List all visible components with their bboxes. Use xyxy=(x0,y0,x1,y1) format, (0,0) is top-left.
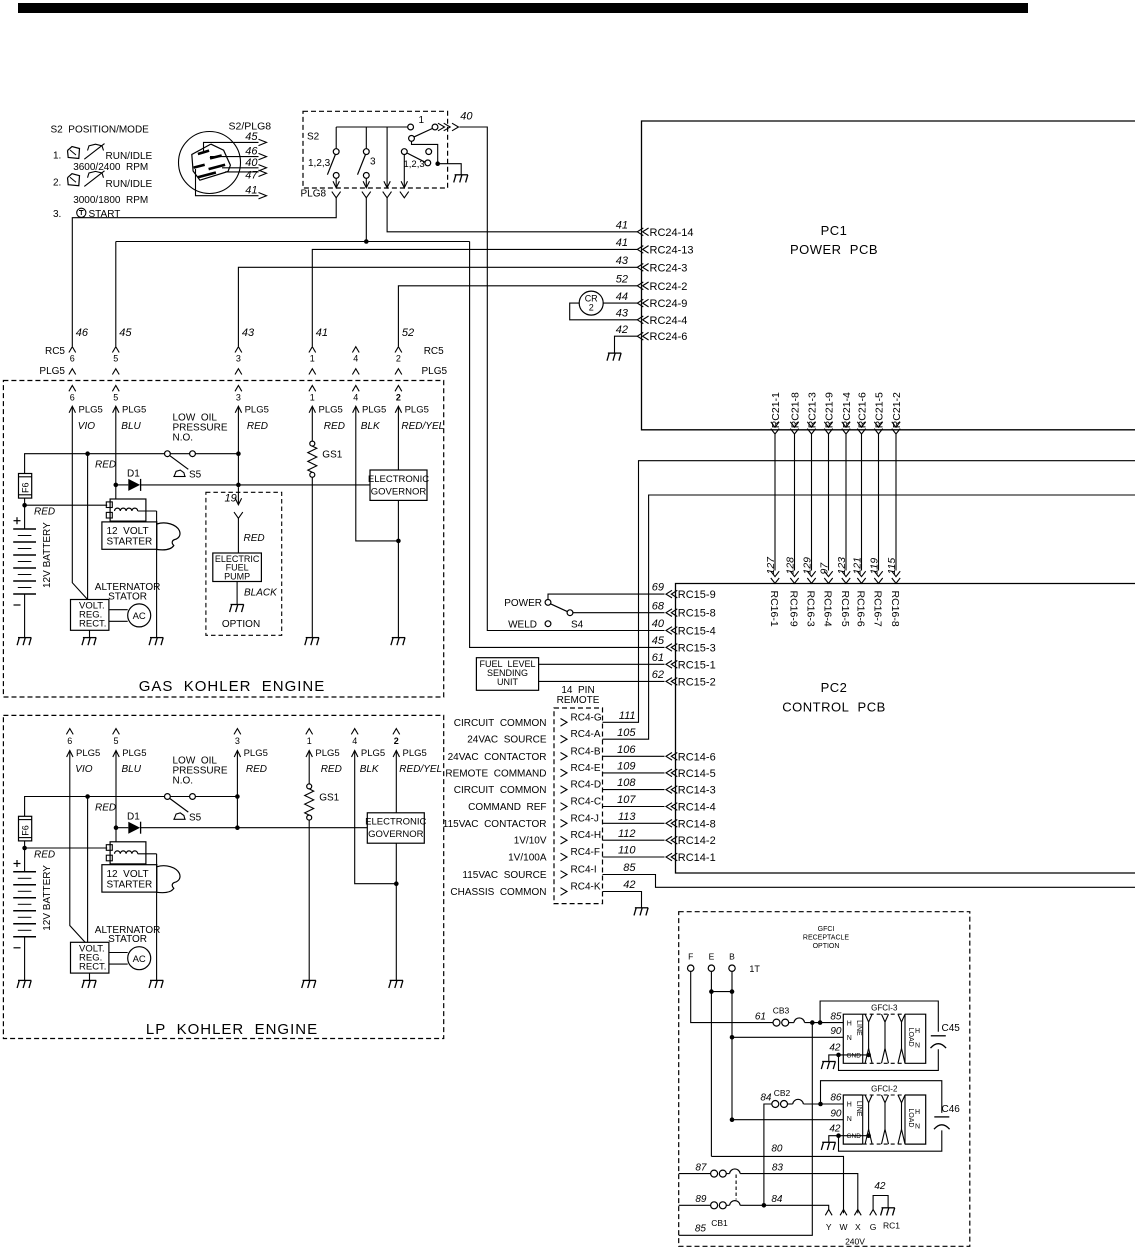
harness wire RC21-1 to RC16-1 number 127 xyxy=(771,422,779,427)
connector pin RC14-1 xyxy=(666,853,672,861)
wire C45 to ground rail xyxy=(839,1049,939,1070)
svg-text:RC15-9: RC15-9 xyxy=(678,589,716,601)
svg-text:113: 113 xyxy=(618,811,636,823)
svg-text:1V/10V: 1V/10V xyxy=(514,836,547,847)
svg-text:N.O.: N.O. xyxy=(173,776,194,787)
wire RED/YEL pin2 xyxy=(397,407,399,470)
svg-text:PLG5: PLG5 xyxy=(315,748,339,759)
svg-text:PC2: PC2 xyxy=(821,680,848,695)
svg-text:AC: AC xyxy=(133,611,146,622)
svg-text:RED: RED xyxy=(247,421,268,432)
svg-text:RC15-4: RC15-4 xyxy=(678,626,716,638)
svg-text:N: N xyxy=(847,1116,852,1123)
rotary contact lead 45 xyxy=(204,142,259,151)
svg-text:44: 44 xyxy=(616,291,628,303)
wire 105 RC4-A xyxy=(603,495,1135,739)
svg-text:RC14-8: RC14-8 xyxy=(678,818,716,830)
ground starter xyxy=(150,637,163,639)
wire BLK pin4 xyxy=(356,407,399,541)
svg-text:RC21-9: RC21-9 xyxy=(823,392,835,428)
svg-text:OPTION: OPTION xyxy=(222,619,260,630)
svg-text:PLG5: PLG5 xyxy=(244,748,268,759)
svg-text:108: 108 xyxy=(617,777,636,789)
GFCI-2 ground node xyxy=(836,1133,841,1138)
wire D1 to governor xyxy=(141,827,368,829)
svg-text:62: 62 xyxy=(652,669,664,681)
svg-text:X: X xyxy=(855,1222,861,1232)
svg-text:121: 121 xyxy=(851,557,863,575)
svg-text:STARTER: STARTER xyxy=(107,537,153,548)
svg-text:2: 2 xyxy=(394,736,399,746)
wire BLU pin5 xyxy=(115,407,117,499)
wire 52 plug pin 2 to RC24-2 xyxy=(398,286,637,347)
wire 41 PLG8-3 to RC24-14 xyxy=(387,198,637,232)
svg-text:RC4-A: RC4-A xyxy=(571,729,601,740)
wire F6 to starter solenoid xyxy=(24,841,26,872)
wire BLU pin5 xyxy=(115,751,117,842)
svg-text:RC24-3: RC24-3 xyxy=(650,262,688,274)
svg-text:84: 84 xyxy=(760,1093,772,1104)
svg-text:RC16-7: RC16-7 xyxy=(872,591,884,627)
wire GFCI-2 load loop top xyxy=(821,1081,942,1113)
svg-text:RED: RED xyxy=(34,849,55,860)
svg-text:61: 61 xyxy=(652,652,664,664)
wire starter to ground xyxy=(156,511,158,637)
plug pins PLG5 column 6 xyxy=(66,729,73,735)
connector pin RC15-9 wire 69 xyxy=(666,590,672,598)
terminal X xyxy=(854,1210,861,1216)
ground RC1 xyxy=(882,1207,895,1209)
svg-text:RED: RED xyxy=(246,764,267,775)
svg-text:Y: Y xyxy=(826,1222,832,1232)
svg-text:52: 52 xyxy=(402,327,414,339)
connector pin RC14-5 xyxy=(666,769,672,777)
wire RC14-1 to remote xyxy=(603,856,665,858)
svg-text:ELECTRONIC: ELECTRONIC xyxy=(368,474,429,485)
svg-text:BLK: BLK xyxy=(361,421,381,432)
starter motor 12 VOLT STARTER xyxy=(102,865,157,892)
svg-text:GAS KOHLER ENGINE: GAS KOHLER ENGINE xyxy=(139,678,326,695)
svg-text:43: 43 xyxy=(616,308,629,320)
wire F6 to starter solenoid xyxy=(24,498,26,529)
svg-text:C46: C46 xyxy=(942,1104,961,1115)
svg-text:RC4-J: RC4-J xyxy=(571,813,599,824)
svg-text:LOAD: LOAD xyxy=(907,1108,914,1127)
harness wire RC21-2 to RC16-8 number 115 xyxy=(892,422,900,427)
PLG8 pin 1 chevron xyxy=(332,192,341,198)
svg-text:1: 1 xyxy=(310,354,315,364)
svg-text:6: 6 xyxy=(70,392,75,402)
remote pin RC4-G wire 111 function CIRCUIT COMMON xyxy=(561,719,568,727)
plug pins PLG5 column 1 xyxy=(306,729,313,735)
svg-text:CIRCUIT COMMON: CIRCUIT COMMON xyxy=(454,718,547,729)
wire battery positive rail xyxy=(25,454,193,474)
svg-text:RC21-1: RC21-1 xyxy=(770,392,782,428)
wire 46 PLG8-1 to plug pin 6 xyxy=(72,198,336,346)
svg-text:3: 3 xyxy=(236,354,241,364)
wire 42 RC4-K to ground xyxy=(603,892,642,908)
PLG8 pin 3 chevron xyxy=(383,192,392,198)
svg-text:LP KOHLER ENGINE: LP KOHLER ENGINE xyxy=(146,1021,318,1038)
connector pin RC15-8 wire 68 xyxy=(666,609,672,617)
rotary switch S2/PLG8 body xyxy=(179,132,241,194)
voltage regulator rectifier xyxy=(71,600,109,631)
svg-text:RUN/IDLE: RUN/IDLE xyxy=(106,179,153,190)
relay CR2 xyxy=(579,291,603,315)
svg-text:40: 40 xyxy=(652,618,665,630)
wire 61 to RC15-1 xyxy=(539,663,665,665)
svg-text:CHASSIS COMMON: CHASSIS COMMON xyxy=(450,887,546,898)
GFCI-2 receptacle slots xyxy=(865,1095,869,1144)
wire 90 B to GFCI-2 N xyxy=(732,1119,843,1121)
connector pin RC24-4 wire 43 xyxy=(637,316,643,324)
svg-text:S2 POSITION/MODE: S2 POSITION/MODE xyxy=(51,125,150,136)
wire battery positive rail xyxy=(25,797,193,817)
ground at RC24-6 xyxy=(608,352,621,354)
svg-text:CONTROL PCB: CONTROL PCB xyxy=(782,700,886,715)
svg-text:VIO: VIO xyxy=(78,421,95,432)
svg-text:83: 83 xyxy=(772,1162,784,1173)
svg-text:RC4-C: RC4-C xyxy=(571,797,602,808)
svg-text:1.: 1. xyxy=(53,151,61,162)
svg-text:RC4-B: RC4-B xyxy=(571,746,601,757)
wire 40 to RC15-4 xyxy=(460,127,665,631)
rotary contact lead 40 xyxy=(222,167,259,169)
svg-text:RC21-2: RC21-2 xyxy=(891,392,903,428)
wire RC14-3 to remote xyxy=(603,789,665,791)
svg-text:RC4-I: RC4-I xyxy=(571,865,597,876)
connector pin RC15-3 wire 45 xyxy=(666,644,672,652)
wire 84 feed to CB2 xyxy=(764,1104,772,1205)
svg-text:3: 3 xyxy=(236,392,241,402)
svg-text:GND: GND xyxy=(847,1133,862,1140)
svg-text:24VAC CONTACTOR: 24VAC CONTACTOR xyxy=(448,752,547,763)
remote pin RC4-A wire 105 function 24VAC SOURCE xyxy=(561,735,568,743)
svg-text:40: 40 xyxy=(460,111,473,123)
svg-text:GFCI: GFCI xyxy=(818,926,835,933)
svg-text:115VAC CONTACTOR: 115VAC CONTACTOR xyxy=(443,819,547,830)
svg-text:RC24-9: RC24-9 xyxy=(650,298,688,310)
svg-text:41: 41 xyxy=(245,185,257,197)
svg-text:GS1: GS1 xyxy=(319,792,339,803)
starter solenoid coil xyxy=(110,499,146,521)
battery 12V xyxy=(13,871,36,873)
GFCI receptacle option enclosure xyxy=(679,912,970,1247)
ground regulator xyxy=(83,979,96,981)
svg-text:GND: GND xyxy=(847,1052,862,1059)
svg-text:12V BATTERY: 12V BATTERY xyxy=(42,865,53,931)
svg-text:127: 127 xyxy=(765,556,777,575)
svg-text:RECT.: RECT. xyxy=(79,619,106,630)
wire 90 B to GFCI-3 N xyxy=(732,1036,843,1038)
svg-text:240V: 240V xyxy=(845,1237,865,1247)
svg-text:43: 43 xyxy=(242,327,255,339)
wire to S2 ground xyxy=(438,164,462,175)
electronic governor xyxy=(370,470,427,500)
svg-text:RC5: RC5 xyxy=(424,346,444,357)
circuit breaker CB1 upper pole wire 87 xyxy=(679,1173,711,1175)
circuit breaker CB1 lower pole wire 89 xyxy=(679,1204,711,1206)
svg-text:69: 69 xyxy=(652,582,664,594)
svg-text:PLG5: PLG5 xyxy=(245,405,269,416)
svg-text:RC16-8: RC16-8 xyxy=(889,591,901,627)
electric fuel pump option enclosure xyxy=(206,492,282,635)
svg-text:6: 6 xyxy=(70,354,75,364)
switch S2 enclosure xyxy=(303,111,448,188)
wire 61 F to CB3 xyxy=(691,971,773,1022)
svg-text:42: 42 xyxy=(616,324,628,336)
svg-text:GOVERNOR: GOVERNOR xyxy=(368,829,424,840)
wire RC14-4 to remote xyxy=(603,806,665,808)
terminal G xyxy=(870,1210,877,1216)
ground regulator xyxy=(83,637,96,639)
wire GS1 to ground xyxy=(308,820,310,980)
wire 41 plug pin 1 to RC24-13 xyxy=(312,249,637,346)
svg-text:12V BATTERY: 12V BATTERY xyxy=(42,522,53,588)
remote pin RC4-H wire 112 function 1V/10V xyxy=(561,836,568,844)
wire E down to 80 xyxy=(710,971,712,1156)
plug pins PLG5 column 4 xyxy=(351,729,358,735)
wire D1 to governor xyxy=(141,484,370,486)
alternator AC xyxy=(128,947,151,970)
svg-text:VIO: VIO xyxy=(75,764,92,775)
connector pin RC14-2 xyxy=(666,836,672,844)
wire 86 CB2 output xyxy=(803,1103,843,1105)
svg-text:RC15-2: RC15-2 xyxy=(678,676,716,688)
svg-text:111: 111 xyxy=(619,710,636,722)
wire 45 drop to RC15-3 xyxy=(470,242,665,648)
wire RC14-5 to remote xyxy=(603,772,665,774)
svg-text:RED: RED xyxy=(95,460,116,471)
svg-text:N: N xyxy=(847,1035,852,1042)
wire C46 to ground rail xyxy=(839,1130,942,1151)
ground at RC4-K xyxy=(635,907,648,909)
svg-text:105: 105 xyxy=(617,727,636,739)
svg-text:PLG5: PLG5 xyxy=(403,748,427,759)
connector pin RC24-3 wire 43 xyxy=(637,264,643,272)
svg-text:S2: S2 xyxy=(307,132,320,143)
wire VIO pin6 xyxy=(72,407,87,600)
rotary contact lead 47 xyxy=(225,171,259,173)
resistor GS1 glow/sender xyxy=(310,441,315,446)
svg-text:F6: F6 xyxy=(20,825,30,836)
ground starter xyxy=(150,979,163,981)
svg-text:42: 42 xyxy=(829,1043,841,1054)
svg-text:REMOTE: REMOTE xyxy=(557,695,600,706)
svg-text:RC4-K: RC4-K xyxy=(571,882,601,893)
wire RED/YEL pin2 xyxy=(395,751,397,813)
wire GS1 to ground xyxy=(311,477,313,637)
svg-text:LOAD: LOAD xyxy=(907,1028,914,1047)
legend icon 1 fuel-can and slash xyxy=(68,147,80,159)
svg-text:89: 89 xyxy=(695,1194,707,1205)
connector pin RC24-9 wire 44 xyxy=(637,299,643,307)
svg-text:PLG5: PLG5 xyxy=(76,748,100,759)
svg-text:5: 5 xyxy=(113,392,118,402)
battery 12V xyxy=(13,528,36,530)
svg-text:H: H xyxy=(847,1021,852,1028)
svg-text:115: 115 xyxy=(886,558,898,575)
svg-text:RC5: RC5 xyxy=(45,346,65,357)
svg-text:61: 61 xyxy=(755,1011,766,1022)
svg-text:BLU: BLU xyxy=(122,764,142,775)
S2 bus wire xyxy=(336,126,409,128)
svg-text:2.: 2. xyxy=(53,178,61,189)
remote pin RC4-D wire 108 function CIRCUIT COMMON xyxy=(561,786,568,794)
svg-text:G: G xyxy=(870,1222,877,1232)
svg-text:RC21-6: RC21-6 xyxy=(856,392,868,428)
svg-text:PLG5: PLG5 xyxy=(361,748,385,759)
svg-text:45: 45 xyxy=(119,327,132,339)
svg-text:84: 84 xyxy=(771,1194,783,1205)
fuse F6 xyxy=(19,474,32,499)
svg-text:PLG5: PLG5 xyxy=(39,366,65,377)
connector pin RC14-4 xyxy=(666,803,672,811)
title bar xyxy=(18,3,1028,13)
connector pin RC15-4 wire 40 xyxy=(666,627,672,635)
svg-text:RED: RED xyxy=(34,507,55,518)
plug pins PLG5 column 5 xyxy=(113,729,120,735)
svg-text:B: B xyxy=(729,952,735,962)
wire RC14-2 to remote xyxy=(603,839,665,841)
svg-text:H: H xyxy=(915,1028,920,1035)
wire RED pin3 xyxy=(236,751,238,828)
svg-text:LINE: LINE xyxy=(855,1020,862,1036)
S2 pass-through wire pin 3 xyxy=(386,127,388,188)
rotary contact lead 41 xyxy=(196,169,259,196)
ground pin2 wire xyxy=(390,979,403,981)
svg-text:AC: AC xyxy=(133,954,146,965)
svg-text:H: H xyxy=(915,1109,920,1116)
ground pin1 wire xyxy=(306,637,319,639)
svg-text:86: 86 xyxy=(830,1093,842,1104)
svg-text:RC4-H: RC4-H xyxy=(571,830,602,841)
plug pins PLG5 column 3 xyxy=(234,729,241,735)
svg-text:RC24-6: RC24-6 xyxy=(650,331,688,343)
svg-text:RC15-1: RC15-1 xyxy=(678,659,716,671)
svg-text:1T: 1T xyxy=(749,964,760,974)
connector pin RC15-1 wire 61 xyxy=(666,661,672,669)
svg-text:PLG5: PLG5 xyxy=(422,366,448,377)
harness wire RC21-3 to RC16-3 number 129 xyxy=(807,422,815,427)
svg-text:85: 85 xyxy=(695,1223,707,1234)
svg-text:CB3: CB3 xyxy=(773,1006,790,1016)
svg-text:1: 1 xyxy=(419,115,425,126)
fuel level sending unit xyxy=(476,658,538,691)
svg-text:97: 97 xyxy=(818,562,830,575)
svg-text:45: 45 xyxy=(245,131,258,143)
svg-text:RC4-E: RC4-E xyxy=(571,763,601,774)
svg-text:45: 45 xyxy=(652,635,665,647)
LP KOHLER ENGINE enclosure xyxy=(3,715,443,1038)
wire 42 G to RC1 ground xyxy=(873,1196,888,1210)
GFCI-3 receptacle slots xyxy=(865,1014,869,1063)
remote pin RC4-F wire 110 function 1V/100A xyxy=(561,853,568,861)
svg-text:RC14-2: RC14-2 xyxy=(678,835,716,847)
svg-text:4: 4 xyxy=(353,354,358,364)
plug pins PLG5 column 2 xyxy=(393,729,400,735)
svg-text:112: 112 xyxy=(618,828,636,840)
svg-text:PLG5: PLG5 xyxy=(79,405,103,416)
svg-text:RC4-G: RC4-G xyxy=(571,712,602,723)
svg-text:4: 4 xyxy=(352,736,357,746)
wire 42 RC24-6 to ground xyxy=(615,336,638,353)
svg-text:115VAC SOURCE: 115VAC SOURCE xyxy=(462,870,546,881)
wire GFCI-3 load loop top xyxy=(820,1001,938,1032)
svg-text:24VAC SOURCE: 24VAC SOURCE xyxy=(467,735,547,746)
svg-text:S5: S5 xyxy=(189,470,202,481)
svg-text:RC15-3: RC15-3 xyxy=(678,642,716,654)
svg-text:PLG5: PLG5 xyxy=(362,405,386,416)
remote pin RC4-E wire 109 function REMOTE COMMAND xyxy=(561,769,568,777)
ground pin2 wire xyxy=(392,637,405,639)
svg-text:STATOR: STATOR xyxy=(108,591,147,602)
svg-text:RECEPTACLE: RECEPTACLE xyxy=(803,935,849,942)
connector pin RC24-6 wire 42 xyxy=(637,332,643,340)
svg-text:5: 5 xyxy=(113,354,118,364)
starter solenoid coil xyxy=(110,842,146,864)
wire 85 drop to bottom xyxy=(679,1023,813,1236)
svg-text:RED: RED xyxy=(324,421,345,432)
svg-text:PLG5: PLG5 xyxy=(319,405,343,416)
svg-text:POWER: POWER xyxy=(504,598,542,609)
svg-text:POWER PCB: POWER PCB xyxy=(790,242,878,257)
svg-text:128: 128 xyxy=(784,557,796,575)
svg-text:RC14-6: RC14-6 xyxy=(678,751,716,763)
harness wire RC21-5 to RC16-7 number 119 xyxy=(874,422,882,427)
svg-text:RC16-3: RC16-3 xyxy=(805,591,817,627)
svg-text:6: 6 xyxy=(67,736,72,746)
svg-text:RC14-4: RC14-4 xyxy=(678,802,716,814)
svg-text:RED: RED xyxy=(95,802,116,813)
alternator AC xyxy=(128,604,151,627)
svg-text:3000/1800 RPM: 3000/1800 RPM xyxy=(73,195,148,206)
svg-text:1V/100A: 1V/100A xyxy=(508,853,547,864)
svg-text:RC4-D: RC4-D xyxy=(571,780,602,791)
fuel pump ground wire xyxy=(236,582,238,605)
wire regulator to ground xyxy=(89,630,91,637)
ground battery xyxy=(18,637,31,639)
svg-text:1: 1 xyxy=(310,392,315,402)
terminal W xyxy=(840,1210,847,1216)
wire battery negative to ground xyxy=(24,594,26,637)
rotary contact lead 46 xyxy=(210,156,259,158)
svg-text:GS1: GS1 xyxy=(322,450,342,461)
svg-text:41: 41 xyxy=(316,327,328,339)
svg-text:12 VOLT: 12 VOLT xyxy=(107,526,149,537)
connector pin RC15-2 wire 62 xyxy=(666,678,672,686)
resistor GS1 glow/sender xyxy=(307,784,312,789)
svg-text:2: 2 xyxy=(396,392,401,402)
wire 83 CB1 to terminal X xyxy=(740,1174,858,1214)
svg-text:RED/YEL: RED/YEL xyxy=(401,421,444,432)
wire RED pin1 xyxy=(311,407,313,441)
ground pin1 wire xyxy=(303,979,316,981)
svg-text:RECT.: RECT. xyxy=(79,962,106,973)
wire 85 RC4-I xyxy=(603,875,1135,888)
fuse F6 xyxy=(19,816,32,841)
svg-text:RC1: RC1 xyxy=(883,1221,900,1231)
harness wire RC21-4 to RC16-5 number 123 xyxy=(842,422,850,427)
svg-text:RC24-4: RC24-4 xyxy=(650,315,688,327)
wire B down to N pins xyxy=(731,971,733,1119)
svg-text:3600/2400 RPM: 3600/2400 RPM xyxy=(73,162,148,173)
svg-text:RC16-1: RC16-1 xyxy=(768,591,780,627)
svg-text:42: 42 xyxy=(874,1181,886,1192)
ground GFCI-3 xyxy=(822,1061,835,1063)
plug pins RC5/PLG5 column 4 xyxy=(352,347,359,353)
wire regulator to ground xyxy=(89,973,91,980)
